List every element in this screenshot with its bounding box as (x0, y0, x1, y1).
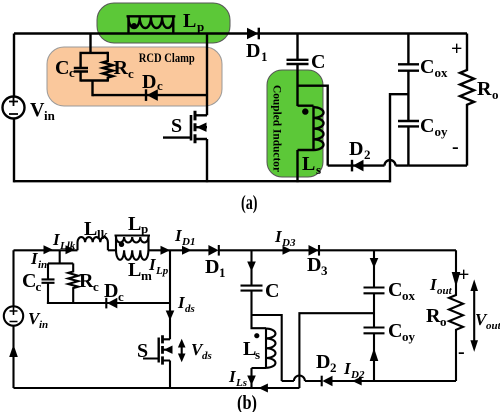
wire: top rail (a) (14, 32, 467, 34)
svg-text:Llk: Llk (59, 240, 76, 252)
svg-text:-: - (452, 136, 459, 158)
wire: output bottom rail (a) (408, 164, 467, 166)
svg-text:D3: D3 (281, 237, 296, 249)
svg-text:C: C (420, 115, 434, 137)
wire: bottom rail (b) (14, 387, 300, 389)
capacitor C (a) (287, 60, 309, 106)
wire: transformer to D1 (b) (149, 249, 209, 251)
capacitor Coy (a) (398, 121, 419, 166)
wire: top rail right segment (b) (219, 249, 456, 251)
resistor Ro (a) (460, 34, 474, 166)
diode D2 (a) (328, 164, 409, 166)
svg-text:L: L (128, 213, 141, 235)
svg-text:Lp: Lp (155, 265, 169, 277)
svg-text:Coupled Inductor: Coupled Inductor (271, 85, 285, 173)
arrow Vout double arrow (473, 288, 475, 343)
capacitor Coy (b) (364, 328, 385, 382)
diode D3 (b) (309, 245, 319, 256)
highlight blob: orange RCD clamp region (47, 47, 222, 106)
arrow ILs down (247, 376, 256, 386)
svg-text:Ls: Ls (235, 377, 247, 389)
wire: Ids branch (b) (169, 250, 171, 339)
arrow ICoy up (370, 348, 379, 361)
arrow Iin (44, 245, 54, 254)
arrow ILlk (66, 245, 76, 254)
mosfet S (b) (143, 339, 170, 388)
wire: C to Ls coil (b) (252, 315, 267, 328)
svg-text:o: o (440, 314, 447, 329)
svg-text:in: in (38, 259, 47, 271)
svg-text:p: p (141, 221, 148, 236)
svg-text:C: C (388, 279, 402, 301)
voltage source Vin (b) (4, 306, 23, 325)
wire: left rail above source (a) (13, 34, 15, 97)
svg-text:S: S (171, 115, 182, 137)
wire: drain branch (a) (206, 34, 208, 116)
svg-text:ox: ox (435, 65, 449, 80)
inductor Lp (127, 16, 176, 34)
highlight blob: green Lp region (97, 3, 230, 43)
svg-text:R: R (477, 78, 492, 100)
svg-text:R: R (426, 305, 441, 327)
capacitor Cc (a) (74, 52, 108, 82)
svg-text:c: c (118, 289, 124, 304)
svg-text:L: L (84, 218, 97, 240)
svg-text:D: D (316, 351, 330, 373)
svg-text:1: 1 (261, 49, 268, 64)
wire: bottom rail (a) (14, 180, 390, 182)
resistor Rc (b) (68, 263, 78, 304)
svg-text:D: D (142, 71, 156, 93)
svg-text:D: D (307, 254, 321, 276)
svg-text:L: L (128, 259, 141, 281)
svg-text:2: 2 (330, 360, 337, 375)
wire: Ls top node to D2 (a) (298, 86, 328, 166)
wire: left rail (b) (12, 250, 14, 388)
svg-text:L: L (302, 153, 315, 175)
svg-text:out: out (437, 285, 453, 297)
svg-text:out: out (486, 320, 500, 332)
capacitor C (b) (241, 286, 263, 315)
svg-text:2: 2 (364, 147, 371, 162)
wire: clamp input drop (a) (89, 34, 91, 53)
svg-text:V: V (30, 99, 45, 121)
svg-text:C: C (311, 51, 325, 73)
resistor Rc (a) (103, 52, 113, 82)
arrow ID2 (352, 377, 362, 386)
svg-text:D: D (104, 280, 118, 302)
mosfet S (a) (163, 115, 207, 182)
capacitor Cox (a) (398, 34, 419, 121)
wire: top rail left segment (b) (14, 249, 78, 251)
svg-text:C: C (55, 57, 69, 79)
svg-text:c: c (157, 78, 163, 93)
resistor Ro (b) (449, 250, 463, 381)
wire: mid branch (b) (299, 313, 374, 388)
svg-text:+: + (451, 38, 462, 60)
svg-text:3: 3 (321, 263, 328, 278)
arrow ID3 (283, 246, 293, 255)
svg-text:C: C (388, 320, 402, 342)
inductor Llk (78, 237, 108, 250)
diode D1 (b) (208, 245, 218, 256)
svg-text:s: s (316, 162, 321, 177)
arrow ID1 (182, 246, 192, 255)
wire hop over mid branch (b) (294, 376, 305, 382)
svg-text:ds: ds (185, 303, 195, 315)
capacitor Cox (b) (364, 250, 385, 327)
svg-text:(b): (b) (237, 392, 257, 412)
arrow Iout (452, 272, 461, 287)
wire hop over mid branch (a) (385, 160, 396, 166)
inductor Ls (b) (252, 328, 267, 388)
voltage source Vin (a) (3, 97, 25, 119)
wire: Ls node to D2 (b) (252, 315, 322, 381)
arrow Vds double arrow (181, 344, 183, 357)
inductor Ls (a) (298, 106, 314, 183)
diode D2 (b) (322, 376, 332, 387)
arrow Ids (166, 311, 175, 321)
wire: clamp block bottom bar (a) (81, 81, 108, 97)
arrow IC down (247, 262, 256, 272)
wire: C branch (a) (296, 34, 298, 60)
wire: left rail below source (a) (13, 119, 15, 183)
svg-text:(a): (a) (241, 192, 258, 214)
wire: Llk to transformer (b) (108, 249, 116, 251)
svg-text:oy: oy (435, 124, 449, 139)
svg-text:lk: lk (97, 227, 109, 242)
highlight blob: green coupled inductor region (267, 70, 323, 177)
svg-text:o: o (492, 87, 499, 102)
svg-text:D2: D2 (350, 369, 365, 381)
svg-text:oy: oy (402, 329, 416, 344)
svg-text:R: R (114, 57, 129, 79)
dot Lp (a) (131, 23, 137, 29)
svg-text:L: L (183, 10, 196, 32)
svg-text:C: C (22, 270, 36, 292)
svg-text:RCD Clamp: RCD Clamp (139, 51, 195, 65)
arrow ICox down (370, 258, 379, 268)
svg-text:D1: D1 (181, 236, 195, 248)
diode Dc (b) (47, 302, 170, 304)
svg-text:+: + (458, 264, 469, 286)
dot transformer (b) (119, 242, 124, 247)
wire: output bottom wire (b) (374, 380, 456, 382)
svg-text:ds: ds (202, 350, 212, 362)
wire: D2 to Coy bottom (b) (333, 380, 375, 382)
svg-text:c: c (93, 279, 99, 294)
svg-text:ox: ox (402, 288, 416, 303)
svg-text:C: C (265, 280, 279, 302)
dot Ls (a) (302, 108, 308, 114)
svg-text:in: in (39, 319, 48, 331)
svg-text:D: D (205, 256, 219, 278)
capacitor Cc (b) (42, 279, 55, 304)
svg-text:c: c (128, 66, 134, 81)
svg-text:in: in (44, 108, 56, 123)
svg-text:D: D (246, 40, 260, 62)
svg-text:p: p (197, 19, 204, 34)
arrow: up arrow on left rail (b) (9, 345, 18, 358)
svg-text:c: c (36, 279, 42, 294)
wire: C branch (b) (250, 250, 252, 285)
svg-text:s: s (255, 347, 260, 362)
transformer Lp winding (b) (115, 236, 151, 251)
svg-text:1: 1 (219, 265, 226, 280)
diode D1 (a) (247, 28, 258, 40)
transformer Lm winding (b) (116, 250, 148, 260)
svg-text:S: S (137, 340, 148, 362)
capacitor Cc block input (b) (48, 250, 73, 278)
svg-text:D: D (349, 138, 363, 160)
arrow ILp (161, 246, 171, 255)
svg-text:c: c (69, 65, 75, 80)
arrow: bottom rail left arrow (b) (258, 384, 268, 393)
svg-text:R: R (79, 270, 94, 292)
svg-text:C: C (420, 56, 434, 78)
wire: mid branch bottom-rail to Cox/Coy midpoint (a) (390, 94, 408, 182)
svg-text:-: - (458, 341, 465, 363)
diode Dc (a) (93, 94, 208, 96)
dot Ls (b) (254, 333, 259, 338)
